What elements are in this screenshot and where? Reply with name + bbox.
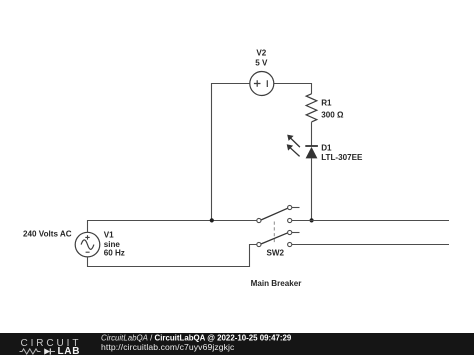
value 60 Hz — [104, 248, 125, 257]
switch SW2 pole A terminals — [257, 205, 292, 222]
wire bottom output rail — [292, 244, 449, 246]
voltage source V2 — [250, 72, 274, 96]
wire — [274, 84, 312, 94]
node junction LED to rail — [310, 218, 314, 222]
svg-text:R1: R1 — [321, 99, 332, 108]
wire — [212, 84, 250, 221]
label R1 — [321, 99, 332, 108]
logo diode — [44, 348, 55, 354]
wire — [88, 221, 257, 233]
switch SW2 linkage (dashed) — [273, 222, 275, 243]
logo resistor zigzag — [20, 349, 41, 354]
wire — [311, 122, 313, 146]
label SW2 — [267, 248, 285, 257]
svg-text:5 V: 5 V — [255, 59, 268, 68]
switch SW2 pole B lever — [261, 233, 288, 244]
svg-text:LTL-307EE: LTL-307EE — [321, 153, 363, 162]
value 5 V — [255, 59, 268, 68]
resistor R1 — [306, 94, 317, 122]
label 240 Volts AC — [23, 229, 72, 238]
svg-text:V2: V2 — [256, 49, 266, 58]
footer bar — [0, 333, 474, 355]
value sine — [104, 240, 121, 249]
value 300 ohm — [321, 111, 344, 120]
svg-text:Main Breaker: Main Breaker — [251, 279, 303, 288]
footer credit line — [101, 333, 292, 342]
label D1 — [321, 143, 332, 152]
label V1 — [104, 231, 114, 240]
wire stub pole B — [292, 232, 300, 234]
wire — [88, 245, 257, 267]
value LTL-307EE — [321, 153, 363, 162]
node junction at V2/V1 rail — [210, 218, 214, 222]
svg-text:300 Ω: 300 Ω — [321, 111, 344, 120]
label V2 — [256, 49, 266, 58]
voltage source V1 — [75, 232, 100, 257]
logo CIRCUIT text — [21, 338, 82, 349]
svg-text:V1: V1 — [104, 231, 114, 240]
svg-text:240 Volts AC: 240 Volts AC — [23, 229, 72, 238]
svg-text:LAB: LAB — [58, 346, 81, 355]
svg-text:60 Hz: 60 Hz — [104, 248, 125, 257]
wire stub pole A — [292, 207, 300, 209]
wire top output rail — [292, 220, 449, 222]
svg-text:D1: D1 — [321, 143, 332, 152]
svg-text:http://circuitlab.com/c7uyv69j: http://circuitlab.com/c7uyv69jzgkjc — [101, 342, 235, 352]
footer url line — [101, 342, 235, 352]
switch SW2 pole B terminals — [257, 230, 292, 246]
logo LAB text — [58, 346, 81, 355]
switch SW2 pole A lever — [261, 208, 288, 220]
label Main Breaker — [251, 279, 303, 288]
LED D1 — [287, 135, 318, 159]
wire — [311, 158, 313, 220]
svg-text:SW2: SW2 — [267, 248, 285, 257]
